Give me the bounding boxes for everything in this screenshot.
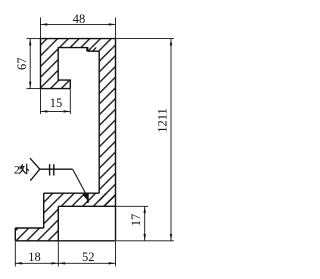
svg-text:52: 52 xyxy=(82,250,95,264)
weld leader arrowhead xyxy=(82,193,88,202)
extension line 1211 top xyxy=(116,38,174,40)
arrow 67 bottom xyxy=(29,82,31,89)
outline: flange top edge xyxy=(15,227,43,229)
weld symbol reference line xyxy=(40,168,73,170)
extension line bottom right (52) xyxy=(115,242,117,267)
glyph 处 drawn xyxy=(20,164,29,173)
dimension line 67 xyxy=(29,39,31,89)
hatch fill: bottom-left L piece xyxy=(15,193,87,241)
extension line 48 right xyxy=(115,18,117,39)
extension line 15 right xyxy=(69,89,71,114)
svg-text:18: 18 xyxy=(28,250,41,264)
hatch fill: bottom band right part xyxy=(88,193,116,206)
extension line 17 top xyxy=(116,205,148,207)
extension line 67 top xyxy=(27,38,41,40)
outline: left edge of part xyxy=(40,38,42,89)
svg-text:48: 48 xyxy=(73,12,86,26)
arrow 15 left xyxy=(41,110,48,112)
svg-text:2: 2 xyxy=(14,162,20,176)
hatch fill: left column with foot xyxy=(41,48,71,89)
arrow 52 left xyxy=(58,262,65,264)
arrow 17 bottom xyxy=(144,234,146,241)
outline: hollow top edge xyxy=(58,205,115,207)
extension line 67 bottom xyxy=(27,88,41,90)
weld seam top joint xyxy=(86,47,88,51)
extension line 15 left xyxy=(40,89,42,114)
outline: hollow left edge xyxy=(57,206,59,241)
svg-text:15: 15 xyxy=(50,96,63,110)
weld leader line xyxy=(73,169,86,194)
arrow 48 left xyxy=(41,23,48,25)
svg-text:1211: 1211 xyxy=(155,108,169,133)
arrow 67 top xyxy=(29,39,31,46)
arrow 15 right xyxy=(64,110,71,112)
arrow 1211 bottom xyxy=(170,234,172,241)
svg-text:67: 67 xyxy=(15,58,29,71)
hatch fill: top bar xyxy=(41,39,116,48)
outline: bottom band top edge xyxy=(44,192,99,194)
arrow 17 top xyxy=(144,206,146,213)
hatch fill: strip under bar right of seam xyxy=(87,48,99,52)
dimension line 18/52 xyxy=(15,262,115,264)
outline: right edge of part xyxy=(115,38,117,241)
outline: flange left edge xyxy=(14,228,16,241)
arrow 52 right xyxy=(109,262,116,264)
arrow 18 right xyxy=(52,262,59,264)
arrow 48 right xyxy=(109,23,116,25)
extension line bottom middle xyxy=(57,242,59,267)
svg-text:17: 17 xyxy=(129,214,143,227)
dimension line 15 xyxy=(41,110,71,112)
dimension line 48 xyxy=(41,23,116,25)
arrow 18 left xyxy=(15,262,22,264)
dimension line 17 xyxy=(144,206,146,241)
extension line 48 left xyxy=(40,18,42,39)
extension line bottom left (18) xyxy=(14,242,16,267)
weld symbol square butt ticks xyxy=(49,164,51,175)
outline: bottom-left column left edge xyxy=(43,193,45,228)
outline: top edge of top bar xyxy=(41,38,116,40)
outline: step under bar xyxy=(87,50,99,52)
outline: stem left edge xyxy=(98,51,100,193)
arrow 1211 top xyxy=(170,39,172,46)
weld symbol tail fork xyxy=(30,158,40,181)
extension line 1211/17 bottom xyxy=(116,240,174,242)
dimension line 1211 xyxy=(170,39,172,241)
hatch line in strip under bar xyxy=(93,47,97,51)
hatch fill: right stem xyxy=(99,48,115,207)
weld seam bottom joint xyxy=(87,193,89,203)
outline: bottom edge xyxy=(15,240,115,242)
outline: inner contour foot right / column right / bar underside xyxy=(58,48,87,89)
outline: foot bottom edge xyxy=(40,88,71,90)
